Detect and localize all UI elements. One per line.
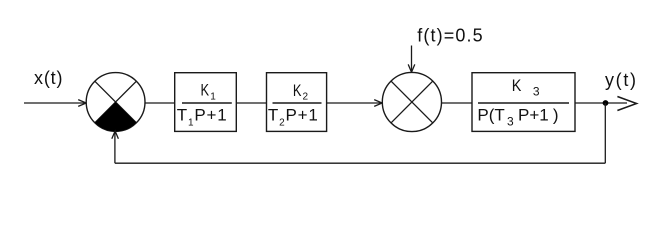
wire: input arrow into summer 1 [24,100,86,107]
svg-text:P(T: P(T [477,106,504,125]
summing junction 2 [382,72,441,131]
wire: feedback bottom run [115,162,605,164]
svg-text:3: 3 [507,114,514,128]
wire: feedback from node down [604,103,606,163]
block K2: K2/(T2P+1) [267,73,327,132]
svg-text:1: 1 [210,91,216,102]
svg-text:f(t)=0.5: f(t)=0.5 [417,26,482,46]
block K1: K1/(T1P+1) [175,73,237,132]
svg-text:2: 2 [303,92,309,103]
svg-text:): ) [553,106,559,125]
svg-text:P+1: P+1 [518,106,549,125]
summing junction 1 [86,73,145,132]
wire: summer 2 to block K3 [442,102,473,104]
wire: summer 1 to block K1 [145,102,175,104]
wire: feedback up into summer 1 (arrow) [112,131,119,163]
wire: disturbance f(t) into summer 2 (arrow down) [408,46,415,73]
wire: output arrow y(t) [617,97,636,111]
wire: block K3 to output node [575,102,627,104]
wire: block K1 to block K2 [236,102,266,104]
svg-text:K: K [201,81,210,100]
wire: block K2 to summer 2 (arrow) [327,100,383,107]
node: output takeoff point [603,100,609,106]
svg-text:x(t): x(t) [34,68,63,88]
svg-text:K: K [293,81,302,100]
svg-text:3: 3 [533,85,540,99]
svg-text:y(t): y(t) [605,70,636,90]
svg-text:K: K [512,76,522,95]
block K3: K3/(P(T3P+1)) [472,73,575,132]
